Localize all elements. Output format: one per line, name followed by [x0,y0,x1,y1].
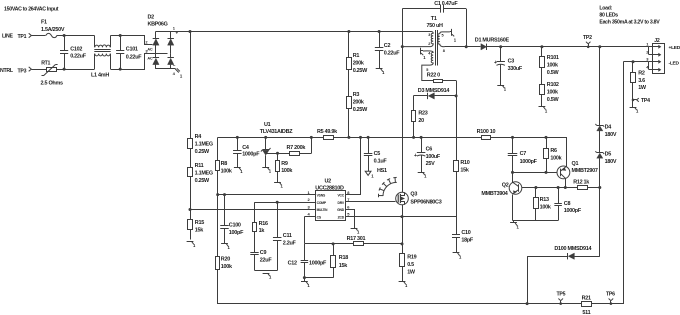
junction C1 right leg / secondary output [465,45,468,48]
junction C8 at Q2 base line [557,186,560,189]
junction C5 at bus [367,136,370,139]
svg-text:100k: 100k [281,168,293,174]
junction U1 at bus [264,136,267,139]
resistor R19 [400,244,405,282]
svg-text:5: 5 [442,33,444,37]
ground net 1 at secondary top [450,29,457,43]
svg-text:1W: 1W [407,269,416,275]
svg-text:1.1MEG: 1.1MEG [195,170,213,176]
junction R23 at VDD bus [412,136,415,139]
wire Q2 collector up [512,173,514,183]
transistor Q1 MMBT2907 [557,166,570,179]
svg-text:C10: C10 [461,230,470,236]
resistor R23 [412,111,416,138]
ground net 1 below R102 [539,107,548,114]
svg-text:R5 49.9k: R5 49.9k [317,129,338,135]
wire C9/C11 ground joint [255,270,278,272]
capacitor C3 [496,47,505,86]
capacitor C7 [508,137,518,172]
svg-text:AC: AC [147,47,152,51]
svg-text:R7 200k: R7 200k [287,145,307,151]
svg-text:Load:: Load: [599,5,612,11]
resistor R101 [540,47,545,84]
wire VDD bus right segment to Q1 emitter [491,138,567,167]
capacitor C6 [417,137,426,172]
junction VDD pin8 branch [359,136,362,139]
junction R6 bottom at Q1 base line [545,171,548,174]
ground net 1 below U1 [262,167,271,173]
wire L1 to bridge AC2 [111,54,168,70]
resistor R10 [454,161,459,217]
svg-text:100k: 100k [547,62,559,68]
svg-text:100k: 100k [221,264,233,270]
resistor R100 [482,136,491,140]
svg-text:R18: R18 [339,255,348,261]
capacitor C11 [273,202,282,270]
test point TP6 [609,299,614,305]
svg-text:TP3: TP3 [18,68,27,74]
test point TP3 arrow [29,67,32,71]
junction C101 top [119,34,122,37]
svg-text:MMBT2907: MMBT2907 [572,168,598,174]
svg-text:L1 4mH: L1 4mH [91,73,109,79]
wire F1 to L1 (LINE) [57,35,95,37]
ground net 1 below C100 [221,244,230,250]
svg-text:C12: C12 [288,260,297,266]
resistor R15 [188,210,193,240]
wire D3 node down to R10 (crosses bus) [456,96,458,161]
svg-text:C2: C2 [384,43,391,49]
svg-text:RT1: RT1 [41,60,50,66]
wire D5 to R12 node and D100 [599,159,601,257]
svg-text:15k: 15k [339,263,348,269]
svg-text:0.25W: 0.25W [353,107,368,113]
junction R3 at bus [347,136,350,139]
junction R2 at -LED line [632,60,635,63]
svg-text:C100: C100 [229,222,241,228]
svg-text:15k: 15k [460,168,469,174]
svg-text:D2: D2 [148,15,155,21]
svg-text:750 uH: 750 uH [427,23,444,29]
svg-text:3: 3 [428,33,430,37]
wire bus corner down to R8 [217,138,219,161]
svg-text:LINE: LINE [2,34,14,40]
bridge diode D2c (top-right) [168,32,174,54]
resistor R11 [188,168,193,210]
ground net 1 below C10 [453,253,462,260]
svg-text:150VAC to 264VAC Input: 150VAC to 264VAC Input [4,7,59,13]
svg-text:TP6: TP6 [606,291,615,297]
svg-text:HS1: HS1 [377,168,387,174]
svg-text:100k: 100k [221,169,233,175]
wire D4 to D5 [599,131,601,153]
svg-text:R9: R9 [281,161,288,167]
wire bridge - bottom rail [156,68,176,70]
svg-text:2.2uF: 2.2uF [283,240,297,246]
junction R18 at CS filter line [332,242,335,245]
wire +LED output line [487,46,649,48]
svg-text:330uF: 330uF [508,66,523,72]
wire emitter/R13/C8 ground joint [513,220,559,222]
svg-text:0.22uF: 0.22uF [384,50,401,56]
zener diode D5 [595,151,604,158]
resistor R13 [534,188,539,221]
svg-text:C11: C11 [283,233,292,239]
svg-text:Q2: Q2 [502,182,509,188]
wire pin4 down to CS filter [304,217,306,244]
junction D4 column at output [598,45,601,48]
svg-text:C102: C102 [70,46,82,52]
svg-text:3.6: 3.6 [638,78,645,84]
capacitor C102 [60,36,68,70]
test point TP4 [632,96,650,108]
junction C11 at COMP line [276,201,279,204]
ground arrow net 1 below C5 [365,171,374,178]
capacitor C4 [233,137,242,167]
wire U2 pin 8 VCC to bus [346,138,361,195]
svg-text:C5: C5 [374,151,381,157]
wire bridge + top rail [156,31,171,33]
junction C102 top [63,34,66,37]
svg-text:F1: F1 [41,20,47,26]
svg-text:1.1MEG: 1.1MEG [195,141,213,147]
svg-text:15k: 15k [195,227,204,233]
junction Q3 source / CS line [401,215,404,218]
svg-text:R4: R4 [195,134,202,140]
svg-text:1000pF: 1000pF [564,208,582,214]
ground net 1 below C4 [234,168,243,174]
ground net 1 below C9/C11 [263,273,272,279]
bridge diode D2a (top-left) [153,32,159,46]
svg-text:Each 350mA at 3.2V to 3.8V: Each 350mA at 3.2V to 3.8V [599,19,660,25]
svg-text:R17 301: R17 301 [347,236,366,242]
diode D3 [414,93,457,99]
test point TP2 [586,42,591,48]
bridge diode D2b (bottom-left) [153,45,159,69]
junction R4 column at rail [189,30,192,33]
svg-text:1.5A/250V: 1.5A/250V [41,27,65,33]
junction R101 at output [540,45,543,48]
junction C101 bottom [119,68,122,71]
svg-text:100k: 100k [540,204,552,210]
svg-text:R3: R3 [353,92,360,98]
wire Q1 collector down to base line [565,179,567,188]
svg-text:0.25W: 0.25W [353,68,368,74]
capacitor C9 [250,253,258,271]
junction C7 at bus [511,136,514,139]
svg-text:NTRL: NTRL [0,68,14,74]
junction C4 at bus [236,136,239,139]
svg-text:0.25W: 0.25W [195,149,210,155]
svg-text:0.1uF: 0.1uF [374,158,388,164]
wire VSNS line to U2 pin 1 [218,194,316,196]
svg-text:C4: C4 [242,145,249,151]
fuse F1 [46,33,57,37]
svg-text:Q3: Q3 [410,192,417,198]
wire C12/R18 bottom joint [305,277,334,279]
svg-text:MMBT3904: MMBT3904 [481,191,507,197]
junction C6 at bus [420,136,423,139]
junction C7 bottom / Q2 collector / Q1 base line [511,171,514,174]
svg-text:TP5: TP5 [557,291,566,297]
capacitor C12 [301,244,309,278]
connector J2 pin arrows [649,45,662,72]
svg-text:VCC: VCC [337,194,344,198]
wire D100 cathode down to bottom rail [527,257,529,304]
wire CS line corner to C10 [456,217,458,235]
wire bottom return rail left [218,270,582,304]
transformer T1 core [436,30,438,66]
inductor L1 common-mode choke [94,36,110,70]
svg-text:GND: GND [337,208,345,212]
junction R17 right / R19 top [401,242,404,245]
svg-text:0.5W: 0.5W [547,97,560,103]
svg-text:R102: R102 [547,82,559,88]
ground net 1 at bridge negative [175,68,183,78]
svg-text:R6: R6 [550,148,557,154]
svg-text:1000pF: 1000pF [309,260,327,266]
svg-text:18pF: 18pF [461,237,474,243]
wire MULTIN line R11/R15 to U2 pin 3 [191,209,316,211]
svg-text:Q1: Q1 [572,161,579,167]
wire U2 pin 4 stub [305,216,316,218]
junction C2 at rail [378,30,381,33]
wire TP1 to F1 [32,35,46,37]
svg-text:100uF: 100uF [426,154,441,160]
svg-text:20: 20 [418,118,424,124]
transformer T1 secondary winding pins 5-8 [438,32,450,47]
svg-text:R1: R1 [353,53,360,59]
wire -LED to J2 pin 3 [624,61,649,63]
svg-text:180V: 180V [605,132,617,138]
junction Q1 collector at Q2 base line [564,186,567,189]
wire secondary to D1 [445,46,481,48]
wire U2 pin 6 GND down [346,210,355,229]
svg-text:D4: D4 [605,125,612,131]
wire rectified HV rail [171,31,432,33]
capacitor C2 [375,32,384,69]
svg-text:25V: 25V [426,161,435,167]
resistor R16 [253,202,257,252]
wire VDD bus mid segment [334,137,482,139]
resistor R8 [216,161,220,195]
svg-text:22uF: 22uF [260,258,273,264]
svg-text:0.22uF: 0.22uF [70,54,87,60]
svg-text:R22 0: R22 0 [427,73,440,79]
svg-text:KBP06G: KBP06G [148,22,168,28]
junction R12 at D4/D5 column [598,186,601,189]
svg-text:-LED: -LED [669,60,680,66]
svg-text:1000pF: 1000pF [242,152,260,158]
resistor R2 [631,62,636,96]
wire Q3 drain column from primary [402,47,404,193]
capacitor C5 [364,137,373,171]
wire COMP line to U2 pin 2 [255,202,316,204]
svg-text:0.5: 0.5 [407,262,414,268]
op-amp U2 body [316,191,346,221]
wire Q3 source down [402,205,404,217]
svg-text:TP4: TP4 [641,98,650,104]
resistor R17 [304,242,402,246]
test point TP1 arrow [29,33,32,37]
ground net 1 at aux winding top [421,48,427,60]
wire L1 to bridge AC1 [111,36,153,45]
svg-text:200k: 200k [353,60,365,66]
svg-text:C7: C7 [520,151,527,157]
zener diode D4 [595,124,604,131]
diode D100 [527,253,600,259]
svg-text:R20: R20 [221,256,230,262]
svg-text:COMP: COMP [317,201,327,205]
svg-text:R15: R15 [195,220,204,226]
wire J2 pin 1-2 tie [648,47,650,55]
svg-text:R16: R16 [259,221,268,227]
junction C12 bottom / R18 bottom [303,276,306,279]
resistor R18 [331,244,336,278]
svg-text:J2: J2 [654,38,660,44]
junction R1 column at rail [347,30,350,33]
junction R6 at bus [545,136,548,139]
svg-text:TP1: TP1 [18,34,27,40]
junction R13 at Q2 base line [534,186,537,189]
svg-text:R19: R19 [407,255,416,261]
transformer T1 aux winding pin 4 [422,51,433,81]
ground net 1 below C12 [301,278,310,288]
transformer T1 primary winding pins 3-2 [402,32,433,47]
svg-text:0.22uF: 0.22uF [126,55,143,61]
ground net 1 at U2 GND [351,228,360,234]
svg-text:R8: R8 [221,161,228,167]
svg-text:ZCD: ZCD [338,215,345,219]
svg-text:VSNS: VSNS [317,194,326,198]
transistor Q3 MOSFET [396,192,409,205]
svg-text:200k: 200k [353,99,365,105]
capacitor C101 [116,36,124,70]
wire RT1 to L1 (NTRL) [57,69,95,71]
wire TP3 to RT1 [32,69,47,71]
wire R22 to D3 anode node [456,81,458,96]
junction R11/R15/MULTIN [189,208,192,211]
svg-text:R21: R21 [582,296,591,302]
wire U2 pin 5 ZCD / CS line [346,216,457,218]
wire VDD bus left segment [218,137,324,139]
svg-text:R101: R101 [547,55,559,61]
resistor R1 [347,32,352,97]
shunt regulator U1 TLV431 [261,137,271,167]
svg-text:100k: 100k [547,89,559,95]
svg-text:0.25W: 0.25W [195,178,210,184]
junction R9 at R7 line [276,152,279,155]
wire D3 cathode to R23 [413,96,415,111]
ground net 1 at Q2 emitter [510,220,519,229]
capacitor C8 [554,188,562,221]
svg-text:R11: R11 [195,163,204,169]
ground net 1 below C2 [376,69,385,76]
svg-text:100k: 100k [550,156,562,162]
wire to Q1 base [513,172,557,174]
wire bottom rail right / -LED return [592,62,624,304]
diode D1 [481,44,487,50]
svg-text:D1 MURS160E: D1 MURS160E [475,37,510,43]
svg-text:R12 1k: R12 1k [573,179,590,185]
svg-text:MULTIN: MULTIN [317,208,328,212]
svg-text:180V: 180V [605,159,617,165]
capacitor C100 [220,195,229,244]
thermistor RT1 [42,65,58,76]
resistor R12 [578,186,600,190]
bridge diode D2d (bottom-right) [168,53,174,69]
svg-text:511: 511 [582,310,590,315]
wire U2 pin 7 DRV to Q3 gate [346,201,396,203]
svg-text:C9: C9 [260,250,267,256]
svg-text:C1 0.47uF: C1 0.47uF [434,1,458,7]
svg-text:U1: U1 [264,122,271,128]
svg-text:TP2: TP2 [583,35,592,41]
resistor R6 [544,137,549,172]
svg-text:D100 MMSD914: D100 MMSD914 [554,246,591,252]
wire Q2 base line to R12 [522,187,578,189]
capacitor C10 [452,235,460,254]
svg-text:U2: U2 [325,178,332,184]
junction R7 at bus [310,136,313,139]
capacitor C1 loop [402,5,466,47]
svg-text:R13: R13 [540,197,549,203]
ground net 1 below C3 [497,85,506,91]
resistor R4 [188,32,193,168]
svg-text:+LED: +LED [669,45,680,51]
ground net 1 below R15 [187,242,196,248]
wire J2 pin 3-4 tie [648,62,650,70]
svg-text:1W: 1W [638,85,647,91]
ground net 1 below R2 [630,107,639,113]
svg-text:T1: T1 [431,16,437,22]
wire R7 up to bus [311,138,313,154]
junction D100 branch on rail [526,302,529,305]
svg-text:5: 5 [426,68,428,72]
ground net 1 below R9 [274,182,283,188]
svg-text:R100 10: R100 10 [477,129,496,135]
resistor R7 [266,152,312,156]
resistor R21 [582,302,592,307]
svg-text:C3: C3 [508,59,515,65]
svg-text:0.5W: 0.5W [547,70,560,76]
ground net 1 below C6 [418,172,427,178]
svg-text:TLV431AIDBZ: TLV431AIDBZ [260,129,293,135]
test point TP5 [558,299,563,305]
svg-text:C101: C101 [126,46,138,52]
junction R8/R20/VSNS [216,193,219,196]
svg-text:80 LEDs: 80 LEDs [599,12,618,18]
wire source to R17 node [402,217,404,244]
svg-text:+: + [414,153,417,159]
svg-text:SPP06N80C3: SPP06N80C3 [410,199,441,205]
junction C3 at output [499,45,502,48]
svg-text:2.5 Ohms: 2.5 Ohms [41,81,63,87]
connector J2 body [653,44,665,74]
resistor R5 [324,136,334,140]
svg-text:100pF: 100pF [229,230,244,236]
resistor R102 [540,85,545,107]
svg-text:C6: C6 [426,146,433,152]
svg-text:1000pF: 1000pF [520,159,538,165]
resistor R3 [347,97,352,138]
svg-text:2: 2 [428,42,430,46]
wire Q2 emitter down [512,195,514,221]
svg-text:R23: R23 [418,111,427,117]
svg-text:+: + [494,60,497,66]
svg-text:D5: D5 [605,152,612,158]
svg-text:R10: R10 [460,160,469,166]
